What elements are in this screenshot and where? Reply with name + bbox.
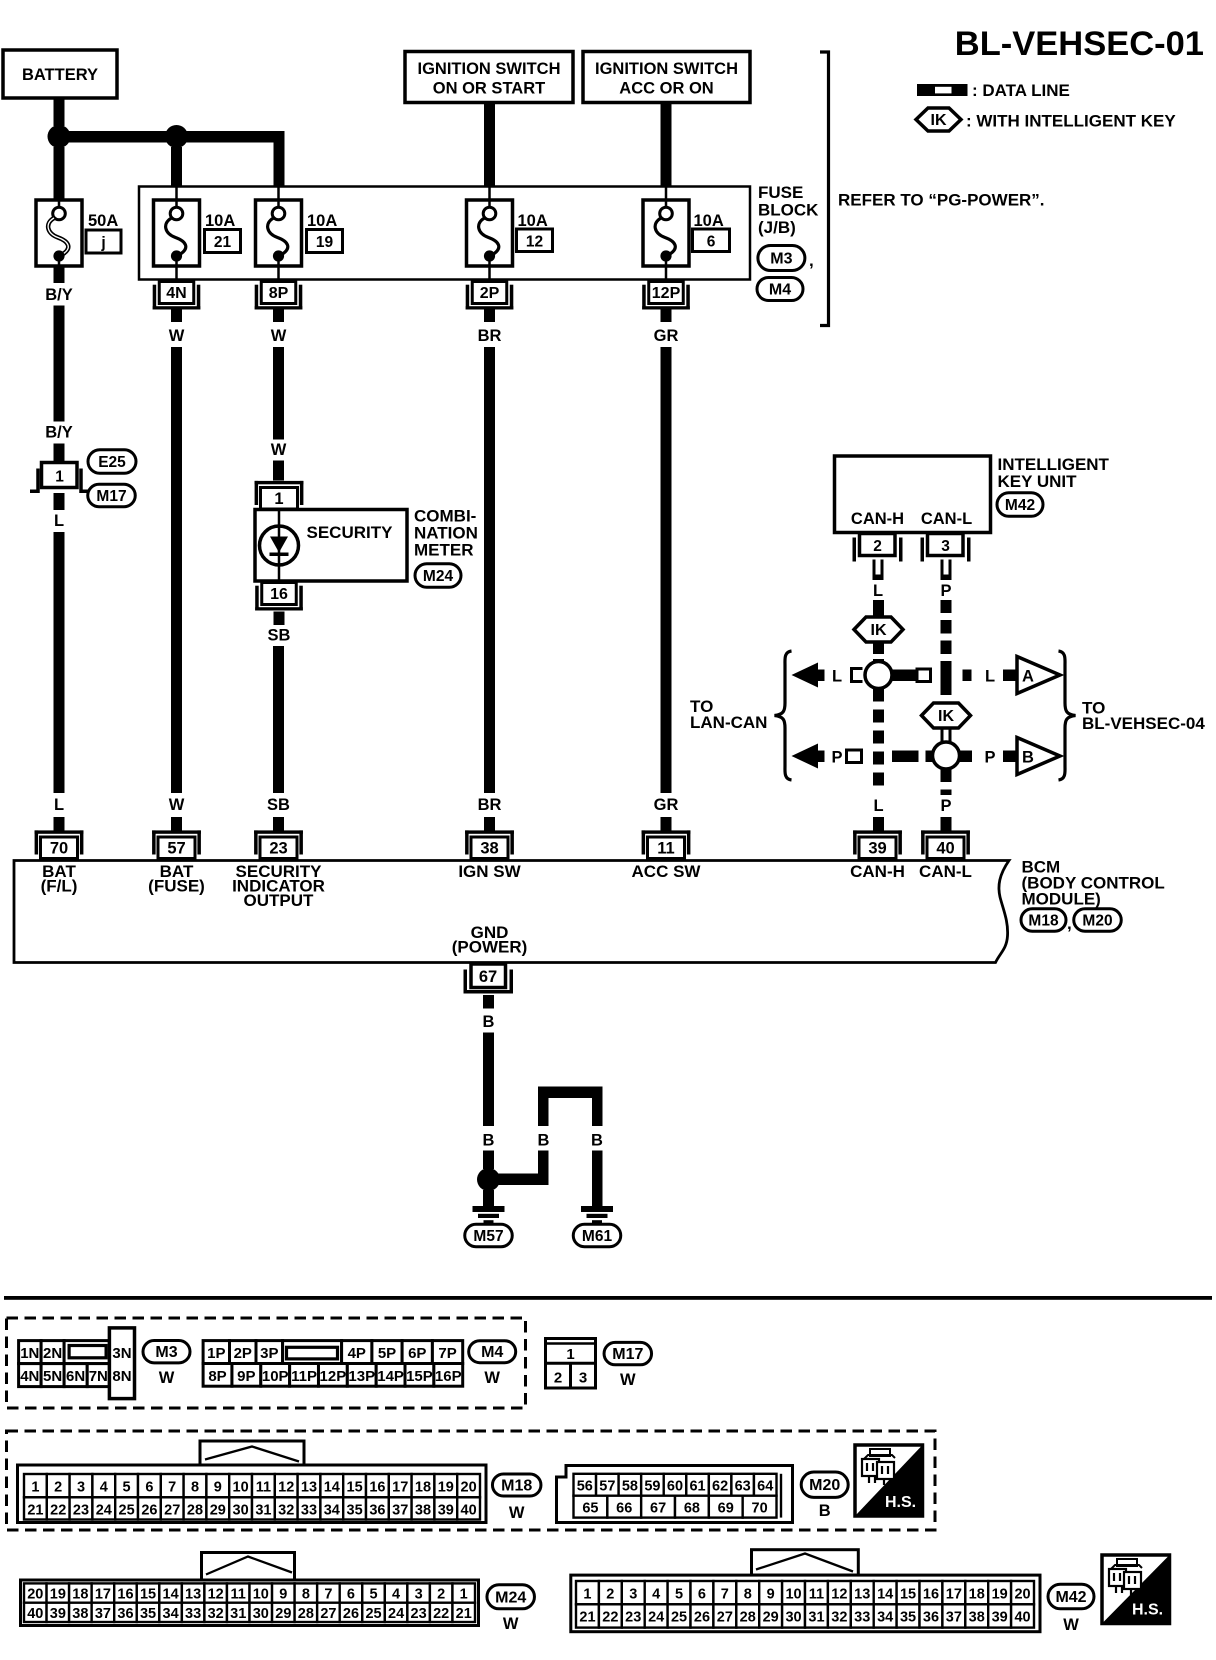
- svg-text:,: ,: [809, 251, 814, 270]
- svg-text:29: 29: [763, 1610, 779, 1626]
- svg-text:3P: 3P: [260, 1345, 278, 1362]
- data line P row into B: [1003, 751, 1017, 763]
- data line L row into A: [1003, 670, 1017, 682]
- svg-text:2: 2: [54, 1479, 62, 1495]
- wire stub above connector 23: [273, 817, 284, 831]
- svg-text:H.S.: H.S.: [1132, 1602, 1163, 1619]
- svg-text:21: 21: [214, 234, 232, 251]
- svg-text:ACC SW: ACC SW: [632, 862, 702, 881]
- wire col3 upper: [273, 347, 284, 440]
- svg-text:P: P: [940, 582, 951, 600]
- svg-text:34: 34: [324, 1502, 340, 1518]
- connector 12P: [642, 282, 690, 310]
- svg-text:13P: 13P: [348, 1368, 375, 1385]
- wire stub below 8P: [273, 309, 284, 323]
- wire col3 long: [273, 646, 284, 793]
- fuse 10A 19: [256, 187, 302, 282]
- svg-text:38: 38: [72, 1606, 88, 1622]
- svg-text:26: 26: [343, 1606, 359, 1622]
- label TO BL-VEHSEC-04: [1082, 699, 1205, 734]
- svg-text:26: 26: [141, 1502, 157, 1518]
- svg-text:16: 16: [923, 1586, 939, 1602]
- svg-text:B: B: [483, 1132, 495, 1150]
- svg-text:26: 26: [694, 1610, 710, 1626]
- svg-text:1: 1: [31, 1479, 39, 1495]
- connector ref M17 (circuit): [88, 484, 136, 507]
- svg-text:37: 37: [946, 1610, 962, 1626]
- svg-text:20: 20: [1014, 1586, 1030, 1602]
- connector ref M24 (pinout): [487, 1585, 535, 1633]
- svg-text:40: 40: [461, 1502, 477, 1518]
- combination meter box: [255, 510, 407, 582]
- svg-text:M4: M4: [481, 1344, 503, 1361]
- connector ref M20 (pinout): [801, 1472, 848, 1520]
- data line P row seg: [892, 751, 933, 763]
- svg-text:7: 7: [324, 1587, 332, 1603]
- svg-text:SECURITY: SECURITY: [307, 523, 394, 542]
- svg-text:4: 4: [392, 1587, 400, 1603]
- svg-text:M24: M24: [423, 568, 454, 585]
- connector face M18 grid: [18, 1441, 487, 1523]
- wire stub below 67: [483, 995, 494, 1009]
- svg-text:35: 35: [347, 1502, 363, 1518]
- svg-text:39: 39: [868, 839, 886, 857]
- fuse 10A 6: [643, 187, 689, 282]
- fuse 10A 21: [154, 187, 200, 282]
- label TO LAN-CAN: [690, 697, 767, 732]
- svg-text:39: 39: [50, 1606, 66, 1622]
- pin 2 stub: [873, 560, 884, 581]
- label L right: [985, 668, 995, 686]
- svg-text:38: 38: [480, 839, 498, 857]
- wire below B col main: [483, 1151, 494, 1170]
- svg-text:33: 33: [854, 1610, 870, 1626]
- connector 23 (BCM pin): [254, 830, 303, 858]
- fuse 12 label: [517, 212, 553, 252]
- svg-text:56: 56: [577, 1479, 593, 1495]
- svg-text:31: 31: [230, 1606, 246, 1622]
- triangle A (to BL-VEHSEC-04): [1017, 657, 1060, 694]
- dashed box M18/M20: [7, 1431, 936, 1530]
- svg-text:14: 14: [324, 1479, 340, 1495]
- svg-text:23: 23: [625, 1610, 641, 1626]
- connector 8P: [255, 282, 303, 310]
- ground M61: [573, 1206, 621, 1247]
- svg-text:21: 21: [27, 1502, 43, 1518]
- labels B row: [483, 1132, 495, 1150]
- svg-text:W: W: [503, 1615, 519, 1633]
- svg-text:10: 10: [233, 1479, 249, 1495]
- svg-text:23: 23: [73, 1502, 89, 1518]
- fuse 21 label: [205, 212, 241, 253]
- connector ref M18 (circuit): [1021, 909, 1072, 933]
- svg-text:8P: 8P: [269, 285, 289, 302]
- IK hexagon can-l: [922, 703, 971, 728]
- svg-text:1P: 1P: [207, 1345, 225, 1362]
- svg-text:3: 3: [579, 1370, 587, 1387]
- svg-text:10: 10: [785, 1586, 801, 1602]
- wire col1 upper: [54, 306, 65, 422]
- connector ref M20 (circuit): [1074, 909, 1122, 932]
- fuse block J/B box: [139, 187, 750, 280]
- svg-text:2: 2: [606, 1586, 614, 1602]
- svg-text:IGNITION SWITCH: IGNITION SWITCH: [418, 60, 561, 78]
- svg-text:30: 30: [233, 1502, 249, 1518]
- svg-text:66: 66: [616, 1501, 632, 1517]
- label P right: [984, 749, 995, 767]
- svg-text:18: 18: [415, 1479, 431, 1495]
- svg-text:MODULE): MODULE): [1022, 890, 1101, 909]
- connector face M20 grid: [557, 1466, 793, 1523]
- H.S. logo (M42): [1102, 1555, 1170, 1624]
- combination meter label: [414, 507, 478, 560]
- svg-text:32: 32: [208, 1606, 224, 1622]
- svg-text:GR: GR: [654, 327, 679, 345]
- data line can-l seg2: [941, 769, 952, 795]
- svg-text:5: 5: [123, 1479, 131, 1495]
- can-l stub below hex: [941, 729, 952, 743]
- connector ref M24 (circuit): [415, 564, 461, 588]
- data line P row seg right of junction: [960, 751, 973, 763]
- svg-text:B: B: [1022, 749, 1034, 767]
- svg-text:19: 19: [992, 1586, 1008, 1602]
- intelligent key unit box: [835, 456, 991, 533]
- svg-text:(J/B): (J/B): [758, 218, 796, 237]
- svg-text:13: 13: [854, 1586, 870, 1602]
- fuse 10A 12: [467, 187, 513, 282]
- svg-text:,: ,: [1067, 914, 1072, 933]
- data line P row hollow dash: [847, 750, 862, 763]
- svg-text:H.S.: H.S.: [885, 1494, 916, 1511]
- svg-text:(F/L): (F/L): [41, 877, 78, 896]
- svg-text:: WITH INTELLIGENT KEY: : WITH INTELLIGENT KEY: [966, 112, 1176, 131]
- wire right leg to gnd M61: [592, 1151, 603, 1207]
- svg-text:ON OR START: ON OR START: [433, 80, 545, 98]
- svg-text:14: 14: [877, 1586, 893, 1602]
- svg-text:19: 19: [316, 234, 334, 251]
- svg-text:6: 6: [347, 1587, 355, 1603]
- svg-text:BR: BR: [478, 327, 502, 345]
- BCM label: [1022, 858, 1165, 909]
- svg-text:14: 14: [163, 1587, 179, 1603]
- svg-text:16: 16: [270, 586, 288, 603]
- svg-text:15: 15: [900, 1586, 916, 1602]
- connector ref M18 (pinout): [492, 1474, 541, 1522]
- wire gnd U-shape right leg: [592, 1087, 603, 1127]
- wire bus corner down to fuse 19: [274, 131, 285, 187]
- svg-text:11: 11: [809, 1586, 824, 1602]
- svg-text:IK: IK: [938, 708, 954, 725]
- connector 1 (meter pin): [255, 481, 304, 509]
- connector face M3 grid: [19, 1328, 135, 1399]
- connector face M4 grid: [203, 1341, 463, 1387]
- svg-text:27: 27: [320, 1606, 336, 1622]
- connector 38 (BCM pin): [465, 830, 514, 858]
- svg-text:P: P: [831, 749, 842, 767]
- svg-text:M24: M24: [495, 1589, 526, 1606]
- svg-text:CAN-H: CAN-H: [851, 510, 904, 528]
- svg-text:6N: 6N: [66, 1368, 85, 1385]
- svg-text:6: 6: [145, 1479, 153, 1495]
- wire stub above connector 38: [484, 817, 495, 831]
- svg-text:7: 7: [721, 1586, 729, 1602]
- svg-text:36: 36: [369, 1502, 385, 1518]
- svg-text:21: 21: [456, 1606, 472, 1622]
- svg-text:W: W: [159, 1369, 175, 1387]
- svg-text:W: W: [484, 1369, 500, 1387]
- brace right to bl-vehsec-04: [1059, 651, 1076, 780]
- svg-text:8: 8: [191, 1479, 199, 1495]
- wire stub below 4N: [171, 309, 182, 323]
- label BR above 38: [478, 796, 502, 814]
- svg-text:5N: 5N: [43, 1368, 62, 1385]
- wire ign on-start to fuse 12: [484, 103, 495, 188]
- svg-text:1: 1: [55, 469, 64, 486]
- svg-text:W: W: [620, 1371, 636, 1389]
- svg-text:35: 35: [140, 1606, 156, 1622]
- wire col1 long: [54, 532, 65, 793]
- svg-text:24: 24: [648, 1610, 664, 1626]
- svg-text:36: 36: [117, 1606, 133, 1622]
- svg-text:1: 1: [274, 490, 283, 508]
- svg-text:3: 3: [77, 1479, 85, 1495]
- label P can-l lower: [940, 797, 951, 815]
- title BL-VEHSEC-01: [955, 25, 1204, 63]
- label B/Y col1 mid: [45, 424, 73, 442]
- svg-text:17: 17: [392, 1479, 408, 1495]
- svg-text:25: 25: [671, 1610, 687, 1626]
- legend data line symbol: [917, 81, 1070, 100]
- svg-text:38: 38: [415, 1502, 431, 1518]
- data line L row seg right of junction: [892, 669, 931, 682]
- svg-text:5: 5: [369, 1587, 377, 1603]
- svg-text:9: 9: [767, 1586, 775, 1602]
- svg-text:23: 23: [269, 839, 287, 857]
- svg-text:1: 1: [460, 1587, 468, 1603]
- svg-text:40: 40: [1014, 1610, 1030, 1626]
- svg-text:BATTERY: BATTERY: [22, 66, 98, 84]
- svg-text:36: 36: [923, 1610, 939, 1626]
- label L col1: [54, 512, 64, 530]
- BCM pin labels: [41, 862, 78, 896]
- wire stub above connector 40: [941, 817, 952, 831]
- svg-text:W: W: [169, 327, 185, 345]
- H.S. logo (M18/M20): [855, 1445, 923, 1516]
- svg-text:12P: 12P: [652, 285, 681, 302]
- label P can-l: [940, 582, 951, 600]
- svg-text:58: 58: [622, 1479, 638, 1495]
- svg-text:M20: M20: [1082, 913, 1112, 930]
- svg-text:11: 11: [231, 1587, 246, 1603]
- connector 40 (BCM pin): [921, 830, 970, 858]
- svg-text:4N: 4N: [20, 1368, 39, 1385]
- svg-text:20: 20: [461, 1479, 477, 1495]
- svg-text:SB: SB: [268, 627, 291, 645]
- svg-text:IGN SW: IGN SW: [458, 862, 521, 881]
- label GR above 11: [654, 796, 679, 814]
- svg-text:B: B: [483, 1013, 495, 1031]
- wire stub below 16: [274, 612, 285, 626]
- svg-text:9: 9: [279, 1587, 287, 1603]
- svg-text:10P: 10P: [262, 1368, 289, 1385]
- connector pin 2: [853, 534, 903, 562]
- svg-text:: DATA LINE: : DATA LINE: [972, 81, 1070, 100]
- svg-text:37: 37: [392, 1502, 408, 1518]
- svg-text:METER: METER: [414, 541, 474, 560]
- svg-text:10: 10: [253, 1587, 269, 1603]
- svg-text:2N: 2N: [43, 1345, 62, 1362]
- wire gnd U-shape top: [538, 1087, 603, 1099]
- svg-text:57: 57: [167, 839, 185, 857]
- wire junction A to fuse 50A: [54, 147, 65, 200]
- label L left: [832, 668, 842, 686]
- svg-text:B/Y: B/Y: [45, 424, 73, 442]
- svg-text:67: 67: [479, 968, 497, 986]
- wire stub above connector 70: [54, 817, 65, 831]
- svg-text:M3: M3: [155, 1344, 177, 1361]
- svg-text:3: 3: [415, 1587, 423, 1603]
- svg-text:23: 23: [411, 1606, 427, 1622]
- svg-text:2P: 2P: [480, 285, 500, 302]
- svg-text:ACC OR ON: ACC OR ON: [619, 80, 713, 98]
- svg-text:L: L: [54, 796, 64, 814]
- data line L row dash: [963, 670, 972, 682]
- svg-text:M42: M42: [1055, 1589, 1086, 1606]
- label SB above 23: [267, 796, 290, 814]
- IK hexagon can-h: [854, 617, 903, 642]
- connector pin 3: [921, 534, 971, 562]
- svg-text:61: 61: [689, 1479, 705, 1495]
- svg-text:2: 2: [437, 1587, 445, 1603]
- data line can-h seg3: [873, 689, 884, 786]
- svg-text:B: B: [819, 1502, 831, 1520]
- svg-text:IGNITION SWITCH: IGNITION SWITCH: [595, 60, 738, 78]
- svg-text:REFER TO “PG-POWER”.: REFER TO “PG-POWER”.: [838, 191, 1045, 210]
- svg-text:7: 7: [168, 1479, 176, 1495]
- arrow to lan-can P: [792, 744, 825, 769]
- svg-text:70: 70: [50, 839, 68, 857]
- svg-text:2: 2: [554, 1370, 562, 1387]
- wire gnd main: [483, 1033, 494, 1127]
- svg-text:15P: 15P: [406, 1368, 433, 1385]
- wire junction to gnd M57: [483, 1190, 494, 1206]
- svg-text:j: j: [100, 235, 105, 252]
- svg-text:BL-VEHSEC-04: BL-VEHSEC-04: [1082, 714, 1205, 733]
- svg-text:13: 13: [185, 1587, 201, 1603]
- wire ign acc to fuse 6: [661, 103, 672, 188]
- svg-text:L: L: [54, 512, 64, 530]
- label L above 70: [54, 796, 64, 814]
- svg-text:25: 25: [119, 1502, 135, 1518]
- svg-text:M57: M57: [473, 1228, 503, 1245]
- svg-text:28: 28: [740, 1610, 756, 1626]
- connector 70 (BCM pin): [35, 830, 84, 858]
- connector ref M42 (circuit): [997, 493, 1043, 517]
- svg-text:1: 1: [583, 1586, 591, 1602]
- ignition switch on or start: [405, 52, 573, 103]
- svg-text:4: 4: [100, 1479, 108, 1495]
- svg-text:BL-VEHSEC-01: BL-VEHSEC-01: [955, 25, 1204, 63]
- svg-text:68: 68: [684, 1501, 700, 1517]
- label B/Y: [45, 286, 73, 304]
- connector ref M17 (pinout): [604, 1342, 652, 1389]
- svg-text:34: 34: [163, 1606, 179, 1622]
- svg-text:9P: 9P: [237, 1368, 255, 1385]
- svg-text:22: 22: [50, 1502, 66, 1518]
- connector face M17 grid: [546, 1339, 596, 1389]
- label P left: [831, 749, 842, 767]
- svg-text:12P: 12P: [320, 1368, 347, 1385]
- svg-text:65: 65: [582, 1501, 598, 1517]
- svg-text:CAN-L: CAN-L: [921, 510, 972, 528]
- node junction A (battery bus): [48, 125, 71, 148]
- node junction can-l: [933, 742, 960, 769]
- label L can-h: [873, 582, 883, 600]
- svg-text:6: 6: [698, 1586, 706, 1602]
- wire gnd U-shape left leg: [538, 1087, 549, 1127]
- wire junction B to fuse block: [171, 147, 182, 187]
- svg-text:M17: M17: [96, 488, 126, 505]
- label W col3 mid: [271, 441, 287, 459]
- svg-text:57: 57: [599, 1479, 615, 1495]
- brace left to lan-can: [775, 651, 792, 780]
- label W col3: [271, 327, 287, 345]
- svg-text:CAN-L: CAN-L: [919, 862, 972, 881]
- svg-text:28: 28: [187, 1502, 203, 1518]
- svg-text:10A: 10A: [205, 212, 235, 230]
- svg-text:L: L: [832, 668, 842, 686]
- wire stub above connector 57: [171, 817, 182, 831]
- refer to PG-POWER bracket: [820, 52, 1045, 326]
- connector face M24 grid: [21, 1553, 479, 1626]
- svg-text:31: 31: [255, 1502, 271, 1518]
- svg-text:67: 67: [650, 1501, 666, 1517]
- svg-text:8P: 8P: [208, 1368, 226, 1385]
- node junction can-h: [865, 662, 892, 689]
- svg-text:11: 11: [657, 839, 674, 857]
- dashed box M3/M4: [7, 1318, 526, 1408]
- wire col1 to connector 1: [54, 444, 65, 463]
- svg-text:32: 32: [278, 1502, 294, 1518]
- label GND POWER: [452, 923, 528, 957]
- connector ref M42 (pinout): [1048, 1584, 1094, 1634]
- fuse 6 label: [693, 212, 730, 252]
- svg-text:M61: M61: [582, 1228, 613, 1245]
- ground M57: [465, 1206, 513, 1247]
- svg-text:W: W: [169, 796, 185, 814]
- svg-text:M4: M4: [769, 282, 791, 299]
- svg-text:15: 15: [347, 1479, 363, 1495]
- wire col2 long: [171, 347, 182, 793]
- svg-text:31: 31: [808, 1610, 824, 1626]
- svg-text:12: 12: [278, 1479, 294, 1495]
- svg-text:M18: M18: [501, 1478, 532, 1495]
- svg-text:17: 17: [95, 1587, 111, 1603]
- section divider: [4, 1296, 1212, 1300]
- wire bus horizontal: [59, 131, 285, 143]
- svg-text:11: 11: [256, 1479, 271, 1495]
- svg-text:12: 12: [526, 234, 543, 251]
- svg-text:24: 24: [96, 1502, 112, 1518]
- svg-text:4P: 4P: [348, 1345, 366, 1362]
- svg-text:W: W: [1063, 1616, 1079, 1634]
- svg-text:27: 27: [717, 1610, 733, 1626]
- battery: [3, 50, 117, 98]
- label W above 57: [169, 796, 185, 814]
- svg-text:64: 64: [757, 1479, 773, 1495]
- svg-text:BR: BR: [478, 796, 502, 814]
- legend IK with intelligent key: [916, 108, 1176, 131]
